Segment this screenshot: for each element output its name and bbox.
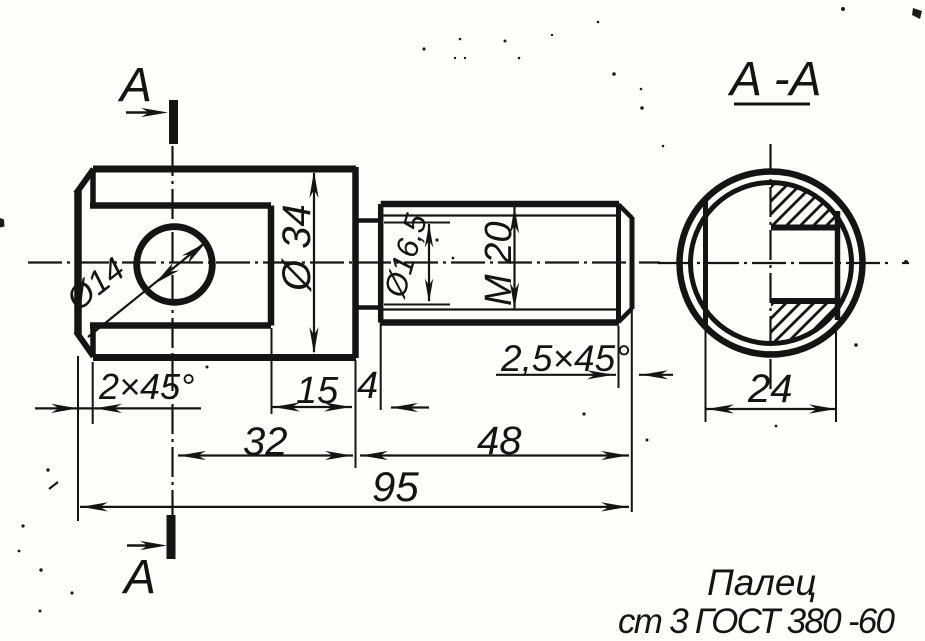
32 left <box>179 451 206 460</box>
slot right face <box>268 206 275 326</box>
section plane bar bottom <box>167 515 176 559</box>
24 right arrow <box>809 404 836 413</box>
dim line 24 <box>706 408 837 410</box>
dim line 4 tail <box>391 406 429 408</box>
slot top line <box>90 202 271 209</box>
dim Ø16.5 line <box>428 224 430 301</box>
M20 down <box>510 283 519 310</box>
ext right face <box>631 310 633 512</box>
48 right <box>601 451 628 460</box>
fork head outline <box>93 169 356 358</box>
thread root bottom thin <box>381 308 619 310</box>
chamfer edge line top <box>90 169 96 206</box>
end chamfer bottom <box>619 309 633 323</box>
2x45 arrow left pointing right <box>51 404 78 413</box>
4 right pointing left <box>391 403 418 412</box>
svg-text:15: 15 <box>296 370 339 412</box>
32 right <box>325 451 352 460</box>
ext slot face <box>271 328 273 414</box>
neck bottom line <box>356 305 380 310</box>
slot bottom line <box>90 322 271 329</box>
svg-text:95: 95 <box>372 463 419 510</box>
chamfer top-left <box>76 169 94 194</box>
dia16.5 down <box>425 279 433 303</box>
M20 up <box>510 207 519 234</box>
dim line 48 <box>360 454 629 456</box>
2.5x45 arrow pointing left <box>641 370 668 379</box>
arrowheads <box>51 108 668 550</box>
ext thread end <box>618 326 620 388</box>
section arrow top <box>126 111 152 114</box>
dim M20 line <box>513 207 515 309</box>
slot top line <box>771 225 839 231</box>
right end face <box>630 217 635 309</box>
24 left arrow <box>707 404 734 413</box>
centerline dot right <box>902 262 909 264</box>
15 left <box>273 402 300 411</box>
chamfer edge line bottom <box>90 325 96 357</box>
dim Ø16.5 ext bottom <box>384 304 450 306</box>
svg-text:Ø14: Ø14 <box>59 250 132 318</box>
2x45 arrow right pointing left <box>95 404 122 413</box>
dim Ø34 line <box>313 173 315 352</box>
ext left face <box>77 356 79 521</box>
svg-text:A -A: A -A <box>727 53 822 106</box>
section vertical centerline <box>769 144 771 390</box>
svg-text:A: A <box>117 59 152 112</box>
thread outer top <box>381 201 619 208</box>
dim line 2.5x45 right tail <box>639 374 673 376</box>
dim line 95 <box>80 506 629 508</box>
dia34 down <box>309 327 318 354</box>
section arrow bottom head <box>140 541 167 550</box>
svg-text:Ø 34: Ø 34 <box>275 204 319 293</box>
title A-A underline <box>734 103 810 106</box>
svg-text:2×45°: 2×45° <box>98 366 194 407</box>
ext thread start <box>380 322 382 410</box>
svg-text:Палец: Палец <box>707 562 817 603</box>
svg-text:48: 48 <box>477 419 522 463</box>
95 left <box>81 502 108 511</box>
flat left <box>703 198 708 326</box>
dia14 arrow lower <box>155 263 179 284</box>
neck top line <box>356 218 380 223</box>
ext chamfer <box>92 362 94 424</box>
hole dia leader <box>88 243 205 338</box>
ext body face <box>355 360 357 468</box>
section arrow bottom <box>127 544 153 547</box>
ext 24 right <box>835 324 837 422</box>
section inner arc <box>691 183 852 344</box>
slot bottom line <box>771 298 839 304</box>
svg-text:M 20: M 20 <box>478 222 520 306</box>
48 left <box>361 451 388 460</box>
thread start line <box>378 204 384 323</box>
svg-text:4: 4 <box>357 365 378 407</box>
dia14 arrow upper <box>182 243 206 264</box>
2.5x45 arrow pointing right <box>587 370 614 379</box>
section plane bar top <box>169 100 178 144</box>
15 right <box>324 402 351 411</box>
flat right <box>835 211 841 320</box>
dim Ø16.5 ext top <box>384 222 450 224</box>
left face <box>74 191 82 334</box>
svg-text:2,5×45°: 2,5×45° <box>500 338 630 379</box>
thread outer bottom <box>381 319 619 326</box>
svg-text:ст 3 ГОСТ 380 -60: ст 3 ГОСТ 380 -60 <box>618 602 896 641</box>
hatch top <box>716 180 886 242</box>
dim line 15 <box>272 406 352 408</box>
svg-text:32: 32 <box>243 420 288 464</box>
dim line 2x45 <box>35 407 201 409</box>
hatch bottom <box>714 293 878 362</box>
section outer circle <box>680 172 863 355</box>
body right face <box>352 167 359 358</box>
dim line 32 <box>178 454 353 456</box>
centerline vertical hole axis <box>171 146 173 515</box>
dia34 up <box>309 171 318 198</box>
chamfer bottom-left <box>76 332 94 357</box>
end chamfer top <box>619 205 633 219</box>
thread end line <box>616 204 621 323</box>
svg-text:A: A <box>121 551 156 604</box>
svg-text:24: 24 <box>747 367 793 411</box>
hole circle <box>137 227 213 303</box>
ext 24 left <box>705 326 707 422</box>
section arrow top head <box>141 108 168 117</box>
dia16.5 up <box>425 224 433 248</box>
section horizontal centerline <box>658 262 888 264</box>
centerline horizontal main axis <box>28 261 660 263</box>
thread root top thin <box>381 214 619 216</box>
95 right <box>601 502 628 511</box>
dim line 2.5x45 <box>496 374 616 376</box>
